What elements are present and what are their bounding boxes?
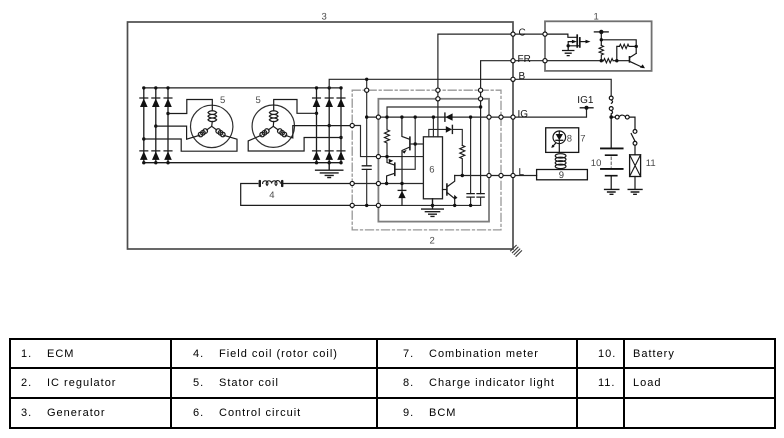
svg-text:9: 9 [559,170,564,181]
ECM FR line + resistor R4 [545,59,629,63]
svg-text:2: 2 [430,236,435,247]
svg-text:4: 4 [269,190,274,201]
node at battery [609,115,613,119]
transistor Q1 [402,117,410,205]
bridge junction dots [142,86,343,164]
rectifier top bus [144,87,341,89]
IG1 power tap [580,106,593,110]
meter-BCM coil [555,154,566,170]
svg-text:IG1: IG1 [577,95,594,106]
svg-text:L: L [519,167,525,178]
control box feeds from top [429,117,446,137]
field coil (4) loop wires [241,184,353,206]
terminal circles on ECM edge [543,32,547,63]
stator 2 phase wires [248,100,352,152]
battery ground [605,189,619,194]
combination meter (7) box [546,128,579,153]
field coil 4 winding [263,181,281,186]
svg-text:6: 6 [429,164,434,175]
ECM MOSFET gate feed [545,34,577,37]
svg-text:IG: IG [518,109,529,120]
transistor Q5 [630,53,646,68]
P sense jog from stator [352,126,378,157]
wire B terminal run [329,79,611,96]
circles on dash-dot boundary [350,88,503,207]
left bridge diode columns [144,88,168,163]
bridge diodes (6 top, 6 bottom) [140,98,345,160]
diode D2 [446,125,453,133]
svg-text:8: 8 [567,133,572,144]
IC regulator dash-dot box (2) [352,90,501,230]
generator box (3) [128,22,514,249]
stator 1 phase wires [144,100,237,152]
MOSFET Q4 [568,35,590,47]
transistor Q3 output [443,176,458,206]
ECM box U1 [545,21,652,71]
svg-text:B: B [519,71,526,82]
wire C terminal run [438,34,545,137]
control circuit box (6) [423,137,442,199]
Q1 base link to control box [395,117,424,169]
svg-text:3: 3 [322,12,327,23]
resistor R2 [460,145,465,175]
BCM (9) box [537,170,588,180]
diode D1 on IG line [445,113,453,121]
resistor R3 [599,45,603,60]
ignition switch (battery feed) [609,96,613,117]
circles on gray box boundary [376,97,491,208]
FR internal line [387,107,481,117]
ECM bias loop + resistor R5 [601,40,636,61]
ground below right bridge [316,163,343,178]
wire L run [455,175,537,177]
svg-text:7: 7 [580,133,585,144]
stator 1 windings [198,111,225,137]
B feed vertical into regulator [366,79,368,205]
load branch wire + switch [611,115,637,155]
svg-text:11: 11 [646,158,656,169]
capacitor C3 on FR [477,194,484,206]
wire FR terminal run [481,61,545,194]
load ground [628,189,642,194]
svg-text:5: 5 [256,95,261,106]
svg-text:1: 1 [594,12,599,23]
capacitor C2 on IG [467,117,474,205]
stator coil 5 (left) circle [191,105,233,147]
transistor Q2 [387,157,395,184]
stator coil 5 (right) circle [252,105,294,147]
stator 2 windings [260,111,287,137]
charge indicator light (8) [551,131,565,152]
P line inside [378,156,423,158]
svg-text:10: 10 [591,158,602,169]
field coil slip ring bars [259,180,284,187]
wire IG run [367,110,587,117]
resistor R2 feed [452,129,462,145]
control box ground [422,199,444,217]
rectifier bottom bus [144,162,341,164]
capacitor C1 on B feed [362,166,371,170]
ECM junction dots [567,38,638,62]
battery (10) [601,117,623,189]
resistor R1 [385,117,390,157]
regulator inner gray box [378,99,489,222]
svg-text:5: 5 [220,95,225,106]
MOSFET source ground [563,46,574,56]
right bridge diode columns [317,88,342,163]
ECM power tap [594,30,608,46]
terminal circles on generator edge [511,32,515,178]
svg-text:FR: FR [518,54,531,65]
load (11) box [630,155,641,189]
regulator junction dots [365,78,482,207]
E ground bus [352,204,480,206]
svg-text:C: C [519,28,526,39]
zener diode Z1 [398,190,406,198]
F field line [352,183,423,185]
chassis hatch at generator frame corner [511,245,522,256]
